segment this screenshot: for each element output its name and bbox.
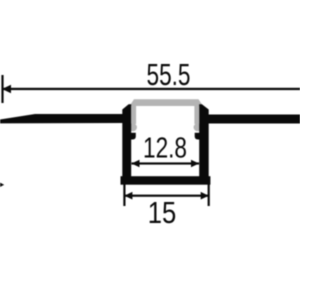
cover left leg (gray) xyxy=(132,103,137,124)
dimension 15 right arrowhead xyxy=(201,192,209,200)
left wall with top outer chamfer xyxy=(122,104,131,178)
cover left clip bump (gray) xyxy=(129,123,137,131)
cover right leg (gray) xyxy=(194,103,199,124)
dimension 55.5 extension line left xyxy=(1,75,3,103)
cropped arrowhead at left edge xyxy=(0,183,4,187)
dimension 55.5 line xyxy=(2,88,300,90)
dimension 15 right extension line xyxy=(208,181,210,207)
dimension 12.8 right arrowhead xyxy=(191,160,199,168)
svg-text:55.5: 55.5 xyxy=(147,57,191,92)
dimension 12.8 left arrowhead xyxy=(132,160,140,168)
dimension 15 left arrowhead xyxy=(124,192,132,200)
svg-text:12.8: 12.8 xyxy=(143,133,187,165)
dimension 55.5 left arrowhead xyxy=(2,85,11,93)
cover right clip bump (gray) xyxy=(194,123,202,131)
right inner hook xyxy=(195,133,200,140)
cover diffuser (gray) xyxy=(130,99,204,106)
svg-text:15: 15 xyxy=(148,195,177,230)
left flange (tapered wing) xyxy=(0,114,123,123)
dimension 15 line xyxy=(124,195,208,197)
left inner hook xyxy=(131,133,136,140)
channel bottom xyxy=(121,176,211,185)
right wall with top outer chamfer xyxy=(199,104,209,178)
right flange (wing) xyxy=(208,115,300,124)
dimension 12.8 line xyxy=(132,162,200,164)
dimension 15 left extension line xyxy=(123,181,125,207)
